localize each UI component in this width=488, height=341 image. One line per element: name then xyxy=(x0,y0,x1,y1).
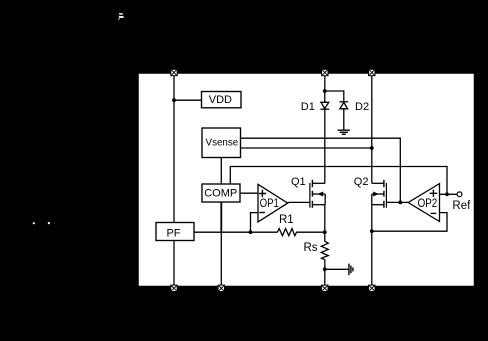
block PF xyxy=(156,223,194,241)
wire Vsense out lower to Q2 drain rail xyxy=(241,147,372,149)
svg-text:VDD: VDD xyxy=(209,94,232,106)
block VDD xyxy=(202,92,242,108)
diode D1 xyxy=(320,102,329,109)
wire COMP to OP1 plus input xyxy=(241,192,259,194)
wire Rs bottom to pin xyxy=(324,269,326,288)
svg-text:R1: R1 xyxy=(279,214,294,226)
wire Vsense to COMP xyxy=(220,158,222,185)
IC body outline xyxy=(138,73,475,287)
svg-text:Q2: Q2 xyxy=(354,176,369,188)
junction D1/D2 xyxy=(323,89,327,93)
junction Rs bottom xyxy=(323,267,327,271)
junction OP1 inverting tap xyxy=(249,230,253,234)
pin bottom COMP xyxy=(218,285,224,291)
wire Q1 source down to node xyxy=(324,205,326,233)
op-amp OP1 xyxy=(258,184,288,222)
pin bottom Q2 source xyxy=(369,285,375,291)
ground below D2 xyxy=(338,130,350,134)
svg-text:Ref: Ref xyxy=(452,200,471,212)
wire COMP top up-and-right to OP2 plus input xyxy=(230,167,447,195)
junction Q2 source / OP2 feedback xyxy=(370,229,374,233)
wire COMP bottom to pin xyxy=(220,202,222,232)
dot artifact left 1 xyxy=(33,222,35,224)
svg-text:Vsense: Vsense xyxy=(206,137,239,148)
wire top pin to Q2 drain xyxy=(371,73,373,183)
pin top Q1 drain xyxy=(322,69,328,75)
resistor R1 xyxy=(277,229,296,236)
pin top-left xyxy=(171,69,177,75)
wire top pin to D1 xyxy=(324,73,326,102)
wire Rs to bottom node xyxy=(324,260,326,270)
junction VDD tap xyxy=(172,98,176,102)
block COMP xyxy=(202,184,240,202)
junction OP2 plus input xyxy=(445,192,449,196)
ground sideways at Rs xyxy=(349,264,353,276)
wire Q1 drain up to pin/D1 xyxy=(324,110,326,184)
cursor artifact top xyxy=(118,13,123,21)
resistor Rs xyxy=(321,241,328,259)
wire OP2 inverting feedback xyxy=(372,213,447,232)
svg-text:D2: D2 xyxy=(355,101,369,113)
transistor Q1 xyxy=(310,180,325,208)
svg-text:PF: PF xyxy=(166,227,180,239)
svg-text:D1: D1 xyxy=(301,101,315,113)
dot artifact left 2 xyxy=(48,222,50,224)
wire R1 to Rs top node xyxy=(296,231,325,233)
svg-text:OP1: OP1 xyxy=(260,196,279,210)
wire Rs bottom to side ground xyxy=(325,268,349,270)
wire Vsense out upper to Q2 gate node xyxy=(241,138,401,202)
svg-text:COMP: COMP xyxy=(204,187,237,199)
transistor Q2 xyxy=(372,180,387,208)
block Vsense xyxy=(202,128,241,158)
wire Q2 gate lead xyxy=(386,201,408,203)
pin bottom Rs xyxy=(322,285,328,291)
wire Q2 source down to pin xyxy=(371,205,373,288)
junction Q1 source / R1 / Rs xyxy=(323,230,327,234)
wire COMP net to bottom pin xyxy=(220,232,222,288)
svg-text:Rs: Rs xyxy=(304,242,318,254)
diode D2 xyxy=(339,102,348,109)
wire VDD-rail vertical left (pin1 to PF) xyxy=(173,73,175,223)
wire node to Rs xyxy=(324,232,326,241)
junction Q2 gate / OP2 output xyxy=(398,201,402,205)
wire to VDD box xyxy=(174,99,202,101)
wire PF bottom to pin xyxy=(173,241,175,289)
op-amp OP2 xyxy=(408,184,439,222)
pin top Q2 drain xyxy=(369,69,375,75)
svg-text:OP2: OP2 xyxy=(418,196,438,210)
wire branch to D2 xyxy=(325,91,344,101)
junction Vsense to Q2 drain xyxy=(370,146,374,150)
wire OP2 plus input to Ref terminal xyxy=(440,193,458,195)
wire OP1 output to Q1 gate xyxy=(288,201,310,203)
wire D2 to ground xyxy=(343,109,345,130)
terminal Ref xyxy=(457,192,462,197)
svg-text:Q1: Q1 xyxy=(291,176,306,188)
wire PF output to R1 to Rs node xyxy=(194,231,278,233)
pin bottom left rail xyxy=(171,285,177,291)
wire OP1 inverting input lead xyxy=(251,213,259,233)
